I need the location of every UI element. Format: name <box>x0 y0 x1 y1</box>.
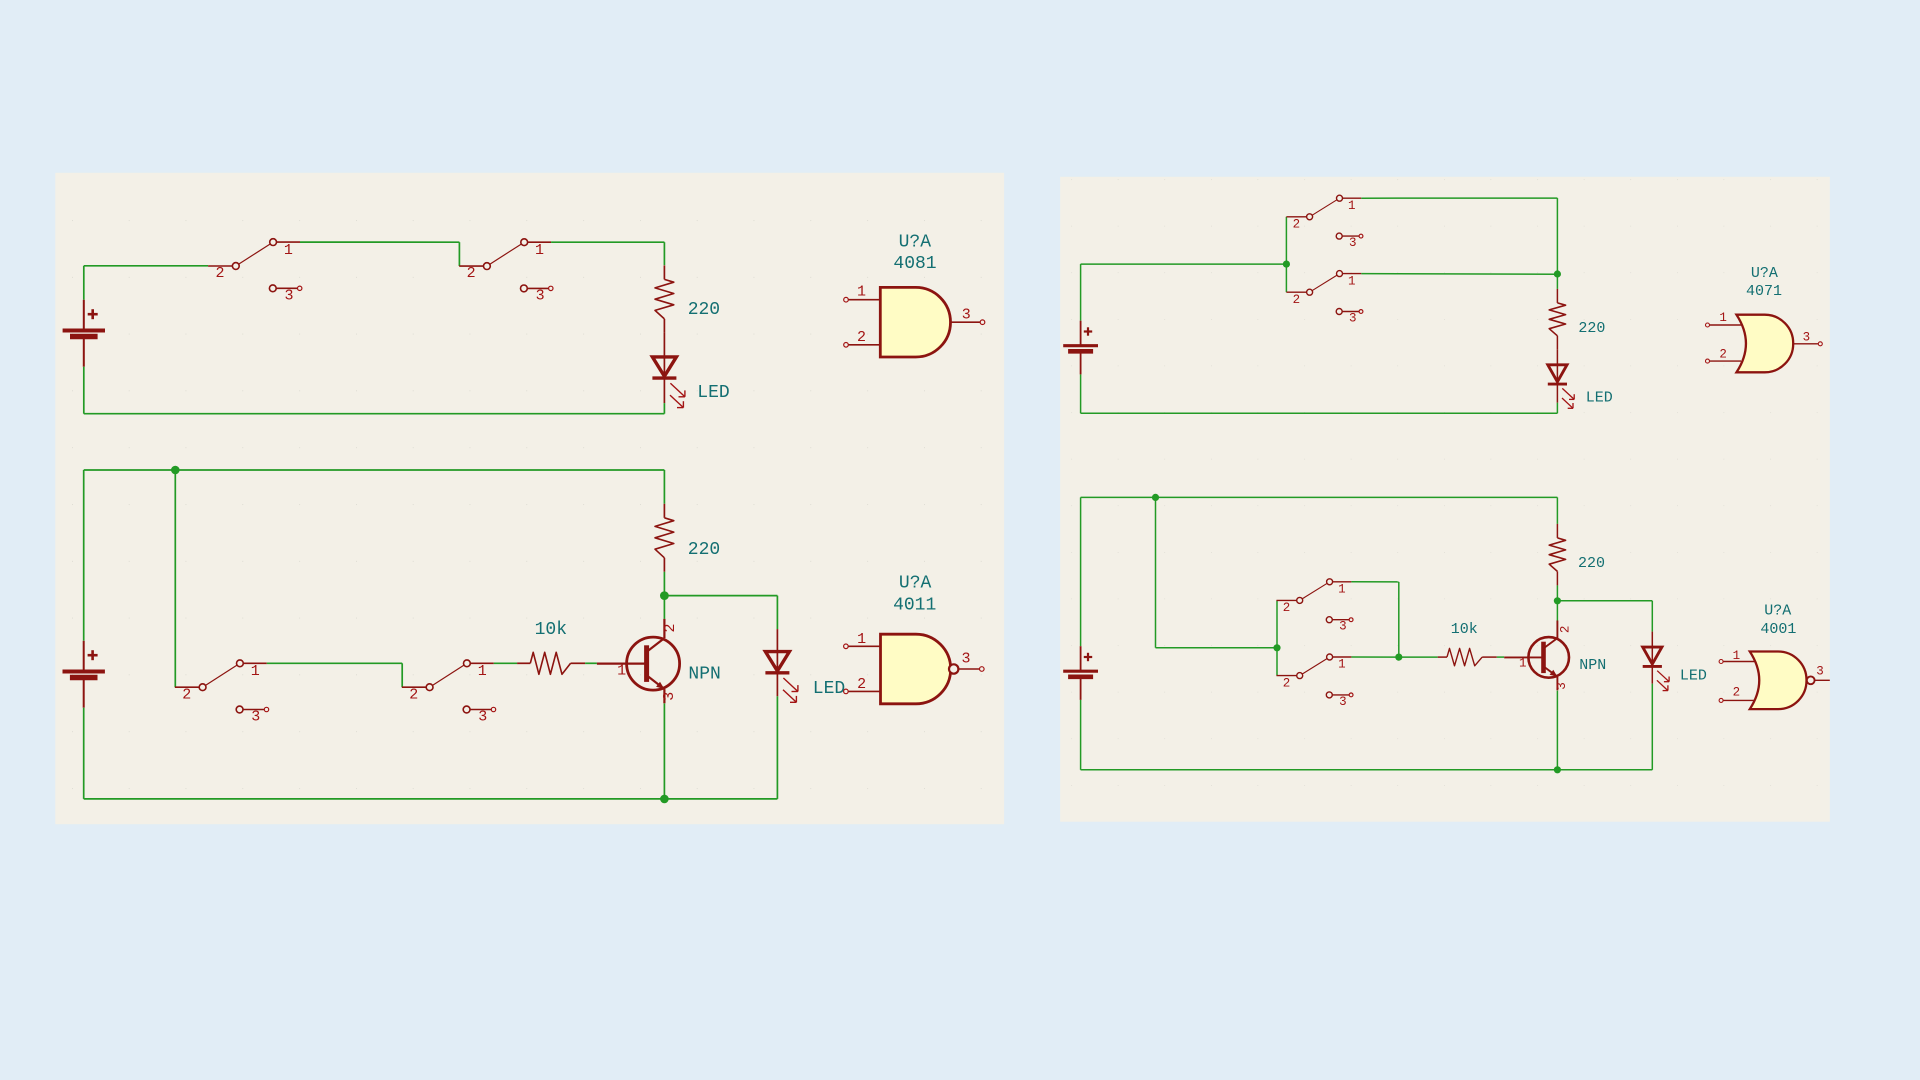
pin 1 <box>1706 311 1742 327</box>
pin 2 <box>844 676 881 694</box>
wire <box>1351 656 1398 658</box>
pin 3 <box>951 306 985 324</box>
wire <box>1557 601 1652 632</box>
wire <box>1351 582 1398 657</box>
junction <box>1152 494 1159 501</box>
wire <box>84 265 208 267</box>
pin 1 <box>844 631 881 649</box>
wire <box>1399 656 1438 658</box>
svg-text:1: 1 <box>1338 583 1346 597</box>
wire <box>1651 684 1653 770</box>
svg-text:LED: LED <box>1680 667 1707 684</box>
wire <box>84 469 665 471</box>
svg-text:U?A: U?A <box>1751 265 1778 282</box>
wire <box>1081 496 1558 498</box>
switch SW1 <box>208 239 302 305</box>
junction <box>1554 766 1561 773</box>
svg-text:1: 1 <box>251 663 260 680</box>
junction <box>1554 270 1561 277</box>
svg-text:3: 3 <box>536 288 545 305</box>
label LED <box>1586 390 1613 407</box>
svg-text:NPN: NPN <box>688 664 720 684</box>
switch SW2 <box>459 239 553 305</box>
resistor R6 10k <box>1438 648 1497 665</box>
wire <box>1497 656 1504 658</box>
op-amp U?A 4001 NOR gate <box>1750 652 1815 710</box>
pin 3 <box>1815 665 1830 681</box>
pin 3 <box>661 692 678 701</box>
svg-text:1: 1 <box>1348 274 1356 288</box>
LED D4 <box>1643 632 1669 691</box>
svg-text:220: 220 <box>688 300 720 320</box>
svg-text:U?A: U?A <box>1764 602 1791 619</box>
svg-text:2: 2 <box>1559 626 1573 634</box>
label 4011 <box>893 596 936 616</box>
svg-text:3: 3 <box>962 306 971 323</box>
svg-text:2: 2 <box>662 623 679 632</box>
svg-text:U?A: U?A <box>899 233 932 253</box>
op-amp U?A 4071 OR gate <box>1737 315 1794 373</box>
resistor R4 220 <box>1549 274 1565 365</box>
wire <box>267 663 402 687</box>
label LED <box>1680 667 1707 684</box>
pin 3 <box>1793 331 1822 346</box>
svg-text:3: 3 <box>1816 665 1824 679</box>
svg-text:1: 1 <box>1719 311 1727 325</box>
svg-text:2: 2 <box>182 686 191 703</box>
battery BT1 <box>63 266 105 414</box>
svg-text:1: 1 <box>535 242 544 259</box>
svg-text:3: 3 <box>961 651 970 668</box>
svg-text:2: 2 <box>1283 601 1291 615</box>
label 10k <box>535 620 567 640</box>
label 220 <box>688 540 720 560</box>
junction <box>660 795 669 804</box>
pin 1 <box>1719 649 1755 664</box>
svg-text:3: 3 <box>1349 236 1357 250</box>
svg-text:2: 2 <box>1733 685 1741 699</box>
wire <box>1081 263 1287 265</box>
svg-text:1: 1 <box>478 663 487 680</box>
svg-text:3: 3 <box>284 288 293 305</box>
resistor R3 10k <box>517 652 585 674</box>
svg-text:3: 3 <box>1803 331 1811 345</box>
pin 2 <box>662 623 679 632</box>
wire <box>664 596 777 630</box>
switch SW8 <box>1277 654 1354 709</box>
op-amp U?A 4081 AND gate <box>880 287 950 357</box>
svg-text:1: 1 <box>857 284 866 301</box>
wire <box>1081 769 1653 771</box>
schematic panel left (KiCad canvas) <box>55 173 1004 824</box>
svg-text:2: 2 <box>857 676 866 693</box>
junction <box>171 466 180 475</box>
switch SW7 <box>1277 579 1354 634</box>
junction <box>1283 261 1290 268</box>
pin 3 <box>958 651 984 672</box>
battery BT2 <box>63 470 105 799</box>
pin 1 <box>617 662 626 679</box>
label 10k <box>1451 621 1478 638</box>
wire <box>1285 217 1287 292</box>
wire <box>494 662 517 664</box>
svg-text:3: 3 <box>251 709 260 726</box>
label NPN <box>688 664 720 684</box>
svg-text:LED: LED <box>1586 390 1613 407</box>
wire <box>1361 198 1557 274</box>
switch SW4 <box>402 660 496 726</box>
label 220 <box>1578 555 1605 572</box>
wire <box>1556 691 1558 770</box>
label 220 <box>688 300 720 320</box>
pin 2 <box>844 329 881 347</box>
op-amp U?A 4011 NAND gate <box>881 634 959 704</box>
wire <box>551 242 664 265</box>
resistor R5 220 <box>1549 497 1565 600</box>
wire <box>84 798 778 800</box>
svg-text:1: 1 <box>1348 199 1356 213</box>
svg-text:4011: 4011 <box>893 596 936 616</box>
schematic panel right (KiCad canvas) <box>1060 177 1830 822</box>
wire <box>663 596 665 619</box>
svg-text:3: 3 <box>661 692 678 701</box>
wire <box>663 703 665 799</box>
label U?A <box>899 574 932 594</box>
wire <box>174 470 176 687</box>
label 220 <box>1578 320 1605 337</box>
svg-text:1: 1 <box>857 631 866 648</box>
svg-text:2: 2 <box>1293 293 1301 307</box>
resistor R1 220 <box>655 265 674 357</box>
svg-text:10k: 10k <box>535 620 567 640</box>
pin 1 <box>1519 657 1527 671</box>
LED D2 <box>765 629 798 702</box>
svg-text:LED: LED <box>813 679 845 699</box>
label 4081 <box>893 254 936 274</box>
svg-text:220: 220 <box>1578 555 1605 572</box>
wire <box>84 413 665 415</box>
svg-text:4071: 4071 <box>1746 283 1782 300</box>
wire <box>1156 497 1278 647</box>
label LED <box>697 383 729 403</box>
svg-text:2: 2 <box>467 265 476 282</box>
LED D3 <box>1548 365 1574 409</box>
switch SW6 <box>1286 271 1363 326</box>
wire <box>1081 412 1558 414</box>
wire <box>1556 601 1558 621</box>
svg-text:2: 2 <box>215 265 224 282</box>
pin 2 <box>1706 348 1742 364</box>
svg-text:3: 3 <box>1339 620 1347 634</box>
wire <box>300 242 459 266</box>
battery BT3 <box>1063 264 1098 413</box>
LED D1 <box>652 357 685 414</box>
svg-text:3: 3 <box>1339 695 1347 709</box>
transistor Q2 NPN <box>1504 621 1569 691</box>
label U?A <box>1751 265 1778 282</box>
svg-text:2: 2 <box>1719 348 1727 362</box>
svg-text:3: 3 <box>1349 312 1357 326</box>
svg-text:3: 3 <box>1555 682 1569 690</box>
wire <box>776 696 778 799</box>
switch SW3 <box>175 660 269 726</box>
transistor Q1 NPN <box>597 619 680 704</box>
svg-text:1: 1 <box>1519 657 1527 671</box>
svg-text:LED: LED <box>697 383 729 403</box>
junction <box>1554 597 1561 604</box>
pin 1 <box>844 284 881 302</box>
label U?A <box>1764 602 1791 619</box>
wire <box>1556 403 1558 414</box>
label U?A <box>899 233 932 253</box>
svg-text:2: 2 <box>1293 218 1301 232</box>
svg-text:1: 1 <box>1338 658 1346 672</box>
svg-text:10k: 10k <box>1451 621 1478 638</box>
svg-text:2: 2 <box>1283 676 1291 690</box>
svg-text:2: 2 <box>409 686 418 703</box>
switch SW5 <box>1286 195 1363 250</box>
resistor R2 220 <box>655 470 674 596</box>
svg-text:4001: 4001 <box>1760 621 1796 638</box>
pin 2 <box>1719 685 1754 702</box>
pin 2 <box>1559 626 1573 634</box>
svg-text:220: 220 <box>1578 320 1605 337</box>
svg-text:U?A: U?A <box>899 574 932 594</box>
svg-text:NPN: NPN <box>1579 657 1606 674</box>
svg-text:3: 3 <box>478 709 487 726</box>
label LED <box>813 679 845 699</box>
wire <box>1361 273 1557 276</box>
battery BT4 <box>1063 497 1098 769</box>
svg-text:4081: 4081 <box>893 254 936 274</box>
svg-text:1: 1 <box>617 662 626 679</box>
label 4001 <box>1760 621 1796 638</box>
svg-text:2: 2 <box>857 329 866 346</box>
svg-text:1: 1 <box>284 242 293 259</box>
wire <box>1276 600 1278 675</box>
wire <box>585 662 597 664</box>
svg-text:1: 1 <box>1733 649 1741 663</box>
label 4071 <box>1746 283 1782 300</box>
svg-text:220: 220 <box>688 540 720 560</box>
junction <box>660 591 669 600</box>
pin 3 <box>1555 682 1569 690</box>
label NPN <box>1579 657 1606 674</box>
junction <box>1273 644 1280 651</box>
junction <box>1395 654 1402 661</box>
